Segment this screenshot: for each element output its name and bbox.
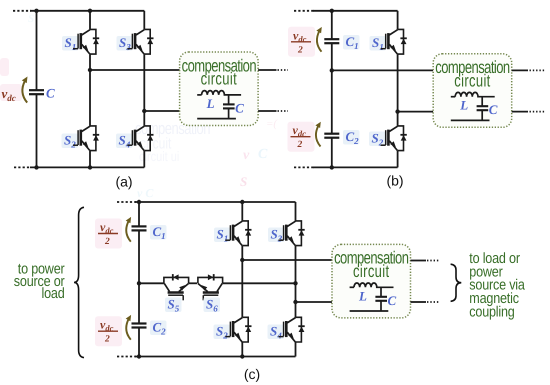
output wire upper right (a) [258,69,288,71]
arrow v_dc/2 upper (b) [316,27,321,52]
capacitor C1 (c) [132,226,147,230]
transistor S5 (c) [164,274,189,300]
capacitor C (a) [29,90,44,94]
svg-text:S: S [240,174,247,189]
node bottom-left (c) [137,354,141,358]
inductor L coil (c) [354,283,394,287]
node top-left (b) [330,9,334,13]
arrow v_dc/2 upper (c) [126,217,131,242]
circuit (a) leg1 wire [89,11,91,168]
label S4 (a) [116,133,133,150]
output wire lower right (a) [258,110,288,112]
circuit (a) left rail wire [36,11,38,168]
node upper output (a) [88,68,92,72]
output wire lower right (b) [512,111,545,113]
circuit (a) top rail wire [30,10,144,12]
compensation circuit box (b) [433,54,512,128]
svg-text:L: L [206,96,215,111]
circuit (a) lower output wire [144,110,179,112]
circuit (b) top rail wire [313,10,398,12]
svg-text:(b): (b) [386,173,403,189]
node middle-left (c) [137,281,141,285]
node bottom-left (a) [34,165,38,169]
circuit (c) top rail dashed lead [117,201,136,203]
transistor S3 (a) [127,29,153,54]
inductor L wire (a) [197,94,201,96]
svg-text:2: 2 [297,140,303,150]
label S2 (a) [62,133,79,150]
circuit (a) bottom rail dashed lead [14,166,31,168]
capacitor C2 (c) [132,324,147,328]
transistor S1 (a) [73,29,99,54]
ghost pink blob left [0,58,9,76]
node lower output (c) [293,300,297,304]
label v_dc (a) [0,84,22,103]
label S3 (c) [268,227,285,244]
transistor S3 (c) [279,221,305,246]
label C1 (b) [343,34,360,51]
node middle leg2 (c) [293,281,297,285]
node bottom leg1 (a) [88,165,92,169]
circuit (a) top rail dashed lead [13,10,31,12]
capacitor C plates (c) [375,297,387,311]
capacitor C1 (b) [324,39,339,43]
transistor S1 (c) [225,221,251,246]
node top-left (a) [34,9,38,13]
svg-text:L: L [459,98,468,113]
transistor S4 (c) [279,317,305,342]
circuit (c) bottom rail wire [135,356,296,358]
svg-text:C: C [235,100,244,115]
output wire lower right (c) [411,301,439,303]
circuit (c) top rail wire [135,201,296,203]
label C1 (c) [150,224,167,241]
inductor L wire (b) [451,96,455,98]
circuit (b) middle rail wire [332,69,433,71]
inductor L coil (a) [202,91,242,95]
compensation circuit box (a) [180,52,259,126]
label S1 (a) [62,35,79,52]
filter bottom wire (b) [451,119,490,121]
svg-text:2: 2 [297,45,303,55]
transistor S2 (b) [381,126,407,151]
circuit (a) bottom rail wire [30,166,144,168]
svg-text:(a): (a) [115,174,132,190]
inductor L coil (b) [455,92,495,96]
transistor S2 (c) [225,317,251,342]
svg-text:C: C [489,102,498,117]
svg-text:2: 2 [104,335,110,345]
right curly brace (c) [451,264,462,301]
circuit (c) middle wire [139,282,296,284]
capacitor C lead (b) [481,97,483,107]
svg-text:=(: =( [266,118,278,130]
node top-left (c) [137,200,141,204]
transistor S4 (a) [127,126,153,151]
filter bottom wire (c) [350,310,389,312]
svg-text:C: C [46,86,55,101]
node upper output (c) [240,258,244,262]
capacitor C2 (b) [324,134,339,138]
node top leg1 (c) [240,200,244,204]
node lower output (a) [142,109,146,113]
label S6 (c) [204,297,221,314]
node switch midpoint (b) [395,109,399,113]
label C2 (c) [150,320,167,337]
label S5 (c) [165,297,182,314]
svg-text:(c): (c) [244,366,260,382]
inductor L wire (c) [350,286,354,288]
circuit (b) switch leg wire [397,11,399,168]
node middle rail (b) [330,68,334,72]
circuit (b) bottom rail dashed lead [294,166,314,168]
transistor S1 (b) [381,29,407,54]
circuit (a) leg2 wire [143,11,145,168]
label S4 (c) [268,324,285,341]
svg-text:C: C [258,147,268,162]
node bottom leg1 (c) [240,354,244,358]
svg-text:S: S [28,13,34,25]
left curly brace (c) [74,207,84,357]
svg-text:v C: v C [137,186,154,200]
label v_dc/2 upper (b) [288,27,315,57]
transistor S6 (c) [198,274,223,300]
circuit (c) leg1 wire [241,202,243,357]
transistor S2 (a) [73,126,99,151]
node bottom-left (b) [330,165,334,169]
label S3 (a) [117,35,134,52]
circuit (b) left rail wire [331,11,333,168]
circuit (c) bottom rail dashed lead [117,356,136,358]
svg-text:C: C [388,293,397,308]
circuit (c) upper output wire [242,259,332,261]
circuit (b) bottom rail wire [313,166,398,168]
capacitor C plates (a) [223,104,235,118]
arrow v_dc/2 lower (b) [315,122,320,147]
circuit (c) lower output wire [296,301,333,303]
output wire upper right (b) [512,69,545,71]
label v_dc/2 upper (c) [95,219,122,249]
arrow v_dc/2 lower (c) [126,315,131,340]
circuit (a) upper output wire [90,69,180,71]
capacitor C plates (b) [477,106,489,120]
label S1 (c) [214,227,231,244]
label S2 (c) [214,324,231,341]
output wire upper right (c) [411,260,439,262]
label S2 (b) [369,131,386,148]
svg-text:L: L [358,288,367,303]
circuit (c) left rail wire [138,202,140,357]
label C2 (b) [343,129,360,146]
arrow v_dc (a) [22,77,28,103]
capacitor C lead (a) [228,95,230,105]
svg-text:v: v [243,148,250,163]
svg-text:2: 2 [104,237,110,247]
circuit (c) leg2 wire [295,202,297,357]
label v_dc/2 lower (b) [288,122,315,152]
filter bottom wire (a) [197,118,236,120]
circuit (b) lower output wire [398,111,434,113]
label v_dc/2 lower (c) [95,316,122,346]
node top leg1 (a) [88,9,92,13]
label S1 (b) [370,35,387,52]
compensation circuit box (c) [332,244,411,318]
circuit (b) top rail dashed lead [294,10,314,12]
capacitor C lead (c) [380,287,382,297]
